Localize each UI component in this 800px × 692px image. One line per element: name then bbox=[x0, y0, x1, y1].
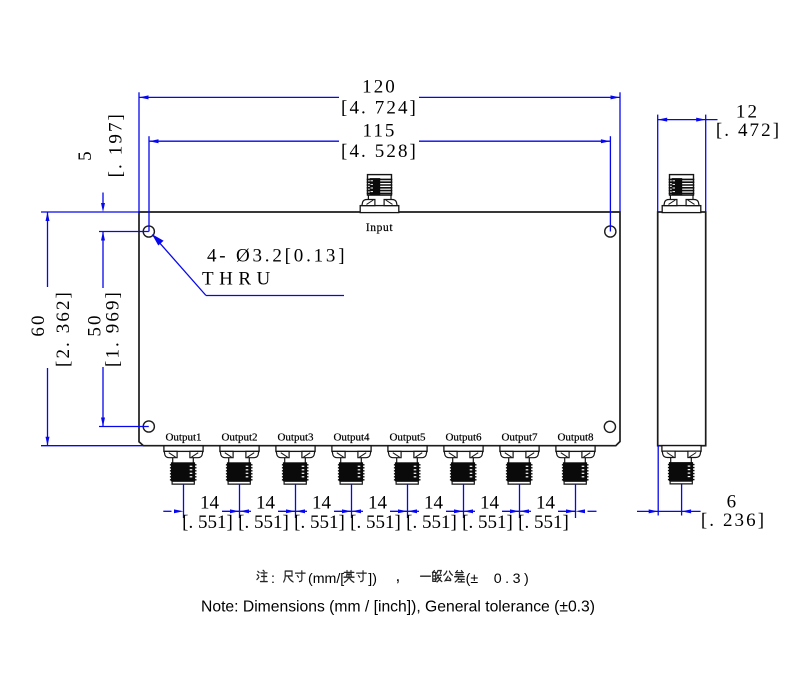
svg-text:14: 14 bbox=[480, 493, 500, 514]
input label bbox=[366, 222, 393, 234]
output6 connector bbox=[444, 446, 483, 484]
chinese note glyph 般 bbox=[432, 571, 441, 582]
hole leader bbox=[152, 234, 344, 296]
svg-text:[. 551]: [. 551] bbox=[518, 512, 569, 533]
chinese note glyph 注 bbox=[257, 570, 267, 581]
svg-text:5: 5 bbox=[75, 149, 96, 161]
svg-text:[. 551]: [. 551] bbox=[350, 512, 401, 533]
svg-text:[. 551]: [. 551] bbox=[406, 512, 457, 533]
svg-text:[. 197]: [. 197] bbox=[106, 112, 127, 177]
svg-text:[. 551]: [. 551] bbox=[182, 512, 233, 533]
chinese note glyph 寸 bbox=[295, 571, 305, 582]
dimension 6 bbox=[637, 446, 701, 516]
svg-text:,: , bbox=[396, 566, 401, 585]
svg-text:]): ]) bbox=[368, 571, 377, 587]
svg-text:14: 14 bbox=[200, 493, 220, 514]
svg-text:0.3): 0.3) bbox=[494, 571, 532, 587]
svg-text:4- Ø3.2[0.13]: 4- Ø3.2[0.13] bbox=[207, 246, 347, 267]
dimension 12 bbox=[658, 115, 718, 212]
mounting hole top-right bbox=[605, 226, 616, 237]
svg-text:Note: Dimensions (mm / [inch]): Note: Dimensions (mm / [inch]), General … bbox=[201, 599, 595, 616]
svg-text:[. 551]: [. 551] bbox=[294, 512, 345, 533]
output3 connector bbox=[276, 446, 315, 484]
output8 connector bbox=[556, 446, 595, 484]
mounting hole bottom-right bbox=[604, 421, 615, 432]
dimension 50 bbox=[99, 232, 149, 427]
svg-text:120: 120 bbox=[362, 77, 397, 98]
svg-text:THRU: THRU bbox=[202, 269, 276, 290]
svg-text:Output8: Output8 bbox=[557, 432, 594, 444]
svg-text:(±: (± bbox=[466, 571, 479, 587]
output4 connector bbox=[332, 446, 371, 484]
svg-text:Output6: Output6 bbox=[445, 432, 482, 444]
chinese note glyph 公 bbox=[444, 571, 453, 580]
svg-text:[. 551]: [. 551] bbox=[238, 512, 289, 533]
dimension 115 bbox=[149, 136, 610, 231]
front view body bbox=[139, 212, 620, 446]
svg-text:14: 14 bbox=[312, 493, 332, 514]
svg-text:60: 60 bbox=[28, 313, 49, 336]
svg-text:14: 14 bbox=[424, 493, 444, 514]
side view body bbox=[658, 212, 706, 446]
chinese note glyph 一 bbox=[421, 575, 431, 577]
svg-text:Output7: Output7 bbox=[501, 432, 538, 444]
mounting hole top-left bbox=[143, 226, 154, 237]
side view bottom connector bbox=[662, 446, 701, 484]
output7 connector bbox=[500, 446, 539, 484]
mounting hole bottom-left bbox=[143, 421, 154, 432]
svg-text:14: 14 bbox=[536, 493, 556, 514]
dimension 14 chain bbox=[163, 484, 596, 518]
svg-text:[4. 724]: [4. 724] bbox=[341, 98, 418, 119]
chinese note glyph 寸 2 bbox=[357, 571, 367, 582]
svg-text:[1. 969]: [1. 969] bbox=[103, 290, 124, 367]
svg-text:Output5: Output5 bbox=[389, 432, 426, 444]
svg-text:[. 236]: [. 236] bbox=[701, 510, 766, 531]
output5 connector bbox=[388, 446, 427, 484]
note english bbox=[201, 599, 595, 616]
side view top connector bbox=[662, 175, 701, 213]
svg-text:Output4: Output4 bbox=[333, 432, 370, 444]
output1 connector bbox=[164, 446, 203, 484]
svg-text:115: 115 bbox=[362, 120, 396, 141]
svg-text:[2. 362]: [2. 362] bbox=[53, 290, 74, 367]
dimension 5 bbox=[101, 193, 105, 241]
hole note text bbox=[202, 246, 347, 290]
chinese note glyph 差 bbox=[455, 571, 465, 582]
svg-text:Input: Input bbox=[366, 222, 393, 234]
svg-text:(mm/[: (mm/[ bbox=[308, 571, 344, 587]
svg-text:14: 14 bbox=[368, 493, 388, 514]
input connector bbox=[360, 175, 399, 213]
output2 connector bbox=[220, 446, 259, 484]
svg-text:[4. 528]: [4. 528] bbox=[341, 141, 418, 162]
svg-text:14: 14 bbox=[256, 493, 276, 514]
note chinese bbox=[257, 566, 532, 587]
chinese note glyph 英 bbox=[344, 571, 354, 583]
svg-text:Output2: Output2 bbox=[221, 432, 257, 444]
dimension 60 bbox=[41, 212, 143, 446]
svg-text:[. 472]: [. 472] bbox=[716, 120, 781, 141]
output labels bbox=[165, 432, 594, 444]
svg-text:[. 551]: [. 551] bbox=[462, 512, 513, 533]
svg-text::: : bbox=[271, 571, 275, 587]
dimension 120 bbox=[139, 92, 620, 211]
chinese note glyph 尺 bbox=[284, 571, 293, 582]
svg-text:Output1: Output1 bbox=[165, 432, 201, 444]
svg-text:Output3: Output3 bbox=[277, 432, 314, 444]
